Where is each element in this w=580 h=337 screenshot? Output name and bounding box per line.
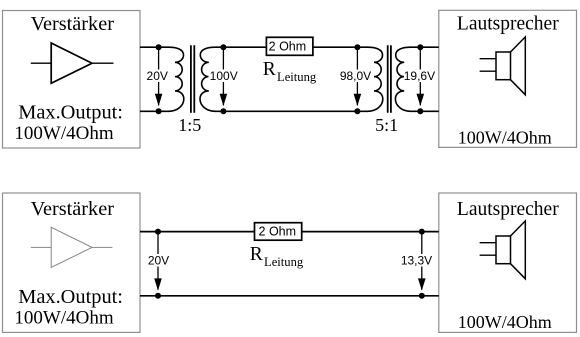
transformer T1 secondary winding (200, 47, 215, 111)
voltage arrow 98,0V (340, 47, 372, 106)
transformer T2 secondary winding (395, 47, 410, 111)
amplifier box U1 (top) (3, 11, 141, 149)
wire bottom (amp to speaker, bottom circuit) (140, 295, 439, 297)
voltage arrow 20V (top) (144, 47, 171, 106)
node dot (19,6V top) (417, 44, 423, 50)
voltage arrow 100V (top) (209, 47, 239, 106)
svg-text:100V: 100V (210, 69, 238, 83)
op-amp U1 triangle (top) (31, 43, 114, 83)
transformer T2 primary winding (368, 47, 383, 111)
node dot (20V bottom circuit, bottom) (155, 293, 161, 299)
wire bottom T2 to speaker (410, 110, 438, 112)
node dot (19,6V bottom) (417, 108, 423, 114)
svg-text:2 Ohm: 2 Ohm (269, 40, 307, 54)
loudspeaker LS1 symbol (top) (480, 37, 526, 95)
wire top (resistor to speaker, bottom circuit) (302, 231, 439, 233)
voltage arrow 13,3V (401, 232, 433, 291)
voltage arrow 20V (bottom) (145, 232, 172, 291)
svg-text:Max.Output:: Max.Output: (18, 101, 123, 123)
svg-text:R: R (263, 59, 276, 80)
node dot (98,0V top) (354, 44, 360, 50)
op-amp U2 triangle (bottom, gray) (31, 227, 113, 267)
resistor R_Leitung 2 Ohm (top) (266, 37, 313, 55)
svg-text:Leitung: Leitung (277, 70, 317, 84)
amplifier box U2 (bottom) (3, 193, 141, 332)
svg-text:Lautsprecher: Lautsprecher (457, 199, 559, 220)
svg-text:20V: 20V (148, 254, 169, 268)
wire top T1 to resistor (215, 46, 266, 48)
svg-text:Verstärker: Verstärker (31, 198, 115, 220)
svg-text:Verstärker: Verstärker (31, 13, 115, 35)
transformer T1 primary winding (169, 47, 184, 111)
wire top (amp to resistor, bottom circuit) (140, 231, 255, 233)
resistor R_Leitung 2 Ohm (bottom) (255, 223, 302, 241)
svg-text:Lautsprecher: Lautsprecher (457, 14, 559, 35)
node dot (20V bottom circuit, top) (155, 229, 161, 235)
loudspeaker LS2 symbol (bottom) (480, 221, 526, 279)
wire top resistor to T2 (313, 46, 368, 48)
svg-text:R: R (250, 244, 263, 265)
svg-text:1:5: 1:5 (178, 115, 201, 135)
svg-text:98,0V: 98,0V (340, 69, 371, 83)
transformer T2 core (387, 45, 389, 113)
svg-text:13,3V: 13,3V (401, 254, 432, 268)
svg-text:20V: 20V (147, 69, 168, 83)
svg-text:Max.Output:: Max.Output: (18, 286, 123, 308)
node dot (20V top) (156, 44, 162, 50)
svg-text:100W/4Ohm: 100W/4Ohm (14, 308, 113, 329)
svg-text:5:1: 5:1 (375, 115, 398, 135)
svg-text:100W/4Ohm: 100W/4Ohm (14, 123, 113, 144)
node dot (100V bottom) (220, 108, 226, 114)
node dot (13,3V bottom) (419, 293, 425, 299)
svg-text:100W/4Ohm: 100W/4Ohm (458, 312, 552, 332)
node dot (13,3V top) (419, 229, 425, 235)
node dot (98,0V bottom) (354, 108, 360, 114)
loudspeaker box LS2 (bottom) (439, 193, 577, 332)
wire bottom T1 to T2 (215, 110, 368, 112)
svg-text:100W/4Ohm: 100W/4Ohm (458, 128, 552, 148)
wire bottom left (amp to T1) (140, 110, 169, 112)
voltage arrow 19,6V (404, 47, 436, 106)
wire top left (amp to T1) (140, 46, 169, 48)
svg-text:19,6V: 19,6V (404, 69, 435, 83)
loudspeaker box LS1 (top) (439, 10, 577, 147)
wire top T2 to speaker (410, 46, 438, 48)
node dot (100V top) (220, 44, 226, 50)
node dot (20V bottom) (156, 108, 162, 114)
svg-text:2 Ohm: 2 Ohm (259, 225, 297, 239)
svg-text:Leitung: Leitung (264, 255, 304, 269)
transformer T1 core (190, 45, 192, 113)
